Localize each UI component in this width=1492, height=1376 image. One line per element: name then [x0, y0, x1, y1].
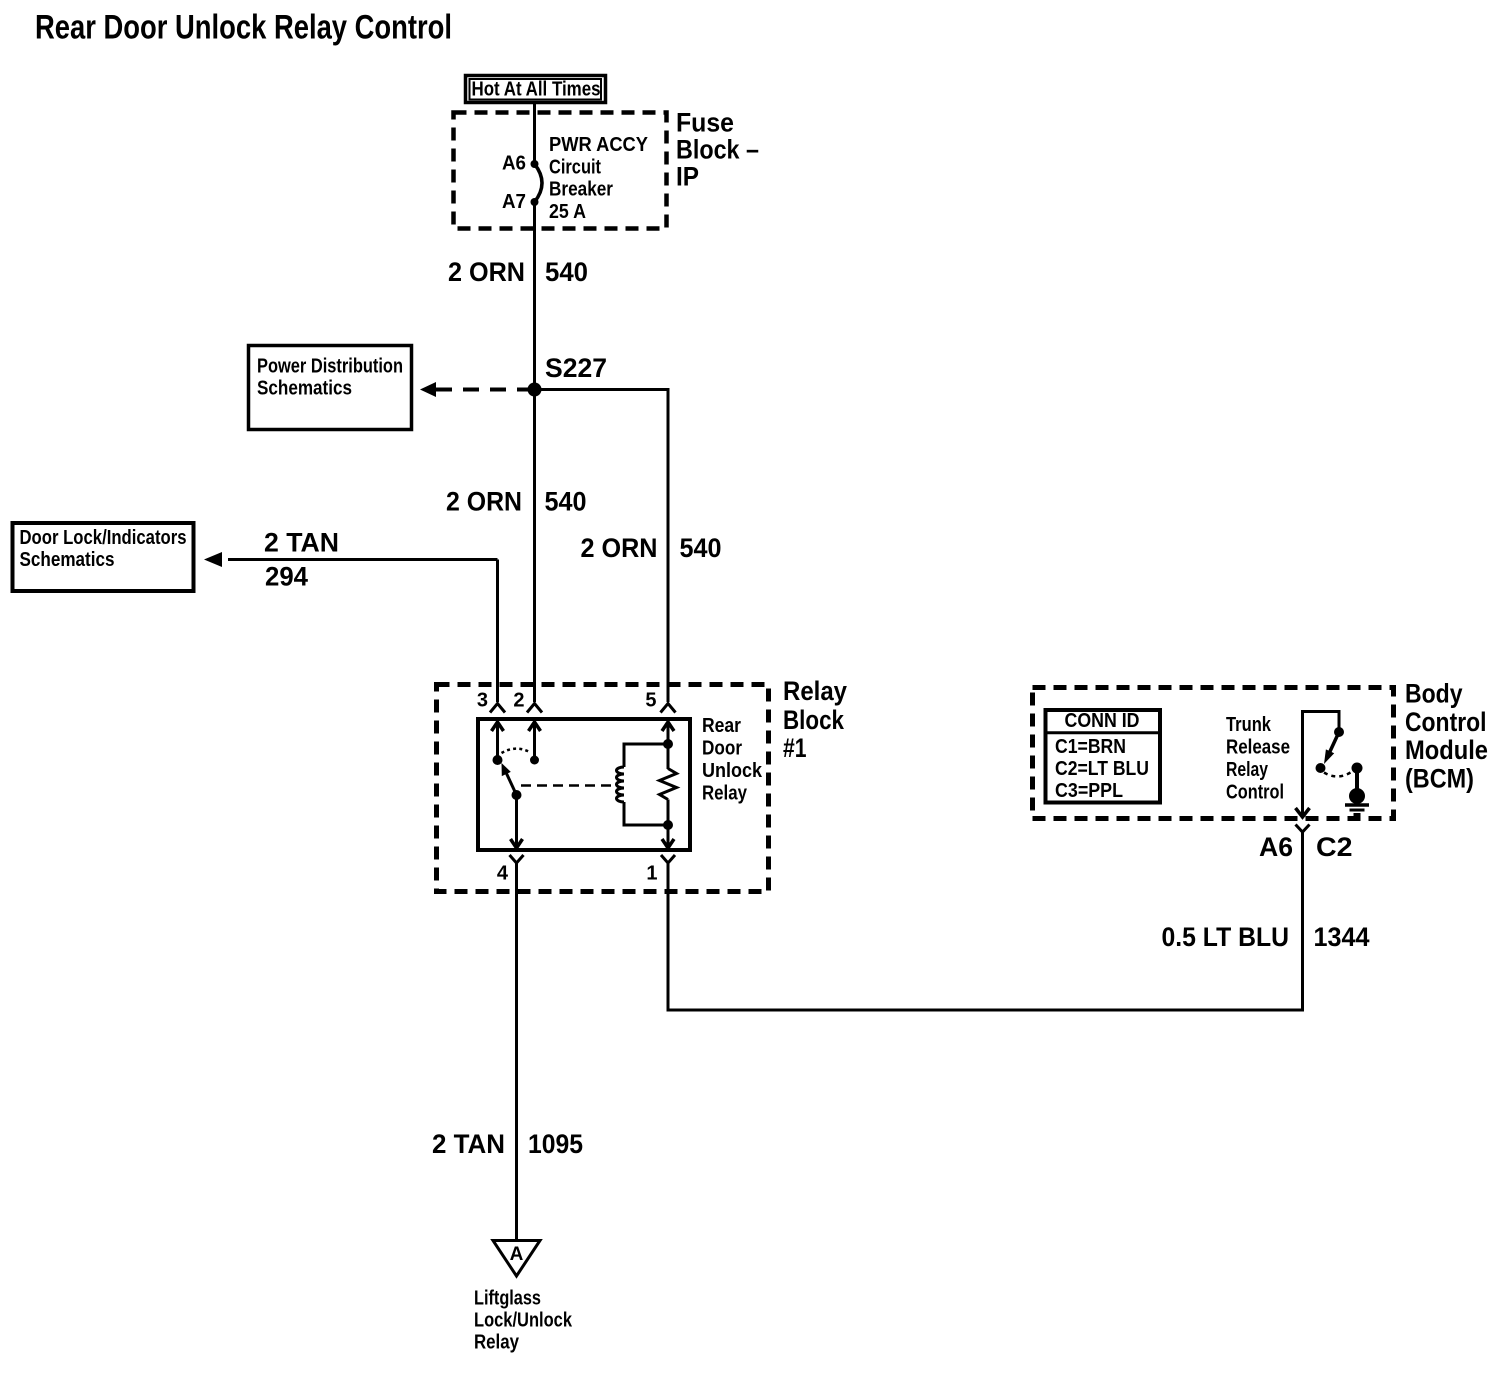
- svg-text:A6: A6: [1259, 832, 1293, 862]
- Power Distribution Schematics box: [249, 346, 412, 430]
- ground stem: [1355, 768, 1359, 789]
- svg-text:Relay: Relay: [783, 676, 847, 706]
- svg-text:Relay: Relay: [702, 783, 748, 805]
- svg-text:Lock/Unlock: Lock/Unlock: [474, 1310, 573, 1332]
- svg-text:Body: Body: [1405, 679, 1463, 709]
- svg-text:Door: Door: [702, 738, 742, 760]
- svg-text:2 TAN: 2 TAN: [432, 1129, 505, 1159]
- label Liftglass Lock/Unlock Relay: [474, 1288, 573, 1354]
- svg-text:1: 1: [646, 863, 657, 885]
- CONN ID table: [1044, 710, 1162, 803]
- BCM switch top contact: [1334, 727, 1344, 737]
- resistor zigzag: [660, 769, 677, 800]
- Relay Block #1 dashed box: [437, 685, 769, 892]
- breaker value label: [549, 134, 649, 223]
- svg-text:PWR ACCY: PWR ACCY: [549, 134, 649, 156]
- Door Lock/Indicators Schematics box: [13, 523, 194, 591]
- label Trunk Release Relay Control: [1226, 714, 1290, 804]
- svg-text:S227: S227: [545, 353, 607, 383]
- svg-text:Door Lock/Indicators: Door Lock/Indicators: [20, 527, 187, 549]
- svg-text:25 A: 25 A: [549, 201, 586, 223]
- svg-text:Breaker: Breaker: [549, 179, 613, 201]
- switch common node: [512, 790, 522, 800]
- wire label 2 TAN 294: [264, 528, 339, 592]
- BCM dashed box: [1033, 688, 1394, 819]
- BCM dashed arc: [1324, 772, 1352, 777]
- svg-text:3: 3: [477, 690, 488, 712]
- svg-text:C3=PPL: C3=PPL: [1055, 780, 1123, 802]
- svg-text:Block –: Block –: [676, 135, 759, 165]
- svg-text:C1=BRN: C1=BRN: [1055, 736, 1126, 758]
- wire label 2 TAN 1095: [432, 1129, 583, 1159]
- svg-text:2: 2: [513, 690, 524, 712]
- wire label 2 ORN 540 branch: [581, 533, 722, 563]
- node A6: [531, 160, 539, 168]
- pin 1 connector Y: [661, 855, 675, 868]
- Hot At All Times box: [466, 76, 606, 103]
- pin 2 wire inside with up arrow: [529, 721, 541, 760]
- wire fuse top: [533, 104, 536, 164]
- svg-text:#1: #1: [783, 733, 807, 763]
- svg-text:2 ORN: 2 ORN: [581, 533, 658, 563]
- BCM switch common node: [1316, 763, 1326, 773]
- wire S227 branch right: [535, 390, 669, 703]
- BCM switch blade with arrowhead: [1324, 732, 1339, 764]
- svg-text:Module: Module: [1405, 735, 1488, 765]
- wire label 0.5 LT BLU 1344: [1162, 922, 1370, 952]
- svg-text:Schematics: Schematics: [20, 549, 115, 571]
- svg-text:Release: Release: [1226, 737, 1290, 759]
- svg-text:Schematics: Schematics: [257, 378, 352, 400]
- coil bottom node: [663, 820, 673, 830]
- ground symbol: [1345, 805, 1369, 815]
- svg-text:Hot At All Times: Hot At All Times: [472, 79, 601, 101]
- svg-text:294: 294: [265, 562, 308, 592]
- circuit breaker arc: [535, 164, 543, 202]
- label Relay Block #1: [783, 676, 847, 763]
- relay inner solid box: [478, 719, 690, 850]
- pin 4 wire inside with down arrow: [511, 795, 523, 848]
- svg-text:1344: 1344: [1314, 922, 1370, 952]
- wire label 2 ORN 540 (to pin 2): [446, 487, 587, 517]
- fuse block dashed box: [454, 113, 667, 229]
- svg-text:Power Distribution: Power Distribution: [257, 356, 403, 378]
- svg-text:Liftglass: Liftglass: [474, 1288, 541, 1310]
- svg-text:Block: Block: [783, 705, 845, 735]
- switch arm with arrowhead: [502, 763, 517, 795]
- svg-text:Trunk: Trunk: [1226, 714, 1272, 736]
- svg-text:Rear Door Unlock Relay Control: Rear Door Unlock Relay Control: [35, 9, 452, 47]
- pin 1 wire inside with down arrow: [662, 800, 674, 849]
- ground ball: [1349, 788, 1365, 804]
- svg-text:1095: 1095: [528, 1129, 583, 1159]
- BCM driver wire: [1296, 712, 1340, 818]
- pin label A6 C2: [1259, 832, 1353, 862]
- wire A7 to S227: [533, 202, 536, 390]
- svg-text:CONN ID: CONN ID: [1065, 710, 1140, 732]
- svg-text:A6: A6: [502, 153, 526, 175]
- svg-text:Relay: Relay: [1226, 759, 1269, 781]
- pin 3 connector chevron: [490, 704, 505, 713]
- svg-text:Fuse: Fuse: [676, 108, 734, 138]
- pin 1 wire down and across to BCM: [668, 838, 1303, 1010]
- relay label: [702, 715, 763, 805]
- svg-text:540: 540: [680, 533, 722, 563]
- wire label 2 ORN 540 (fuse feed): [448, 257, 588, 287]
- svg-text:Circuit: Circuit: [549, 156, 601, 178]
- svg-text:540: 540: [545, 257, 588, 287]
- pin 5 connector chevron: [661, 704, 676, 713]
- svg-text:A: A: [510, 1244, 524, 1265]
- svg-text:C2=LT BLU: C2=LT BLU: [1055, 758, 1149, 780]
- pin 2 connector chevron: [527, 704, 542, 713]
- node A7: [531, 198, 539, 206]
- svg-text:2 ORN: 2 ORN: [446, 487, 522, 517]
- dashed actuation line: [521, 784, 614, 787]
- svg-text:Control: Control: [1226, 782, 1284, 804]
- svg-text:(BCM): (BCM): [1405, 763, 1474, 793]
- svg-text:5: 5: [645, 690, 656, 712]
- svg-text:540: 540: [545, 487, 587, 517]
- relay coil parallel branch: [617, 744, 668, 825]
- wire S227 down: [533, 390, 536, 703]
- dashed arrow to Power Distribution: [420, 382, 528, 397]
- pin 4 connector Y: [510, 855, 524, 868]
- svg-text:Control: Control: [1405, 707, 1487, 737]
- switch pivot node: [493, 755, 503, 765]
- dashed arc between contacts: [502, 749, 531, 753]
- wire to door lock with arrow: [204, 552, 498, 702]
- label Fuse Block - IP: [676, 108, 759, 192]
- pin 4 wire down to triangle: [515, 866, 518, 1240]
- pin 2 contact node: [530, 756, 539, 765]
- node S227: [528, 383, 542, 397]
- svg-text:0.5 LT BLU: 0.5 LT BLU: [1162, 922, 1290, 952]
- svg-text:Unlock: Unlock: [702, 760, 763, 782]
- BCM pin A6/C2 connector Y: [1296, 825, 1310, 841]
- pin 5 wire inside with up arrow: [662, 721, 674, 769]
- svg-text:2 ORN: 2 ORN: [448, 257, 525, 287]
- svg-text:IP: IP: [676, 162, 699, 192]
- label Body Control Module (BCM): [1405, 679, 1488, 794]
- coil top node: [663, 739, 673, 749]
- svg-text:Relay: Relay: [474, 1332, 520, 1354]
- svg-text:4: 4: [497, 863, 509, 885]
- connector triangle A: [493, 1241, 540, 1277]
- BCM ground contact: [1352, 763, 1363, 774]
- svg-text:2 TAN: 2 TAN: [264, 528, 339, 558]
- svg-text:Rear: Rear: [702, 715, 741, 737]
- svg-text:A7: A7: [502, 191, 526, 213]
- pin 3 wire inside with up arrow: [492, 721, 504, 760]
- svg-text:C2: C2: [1316, 832, 1353, 862]
